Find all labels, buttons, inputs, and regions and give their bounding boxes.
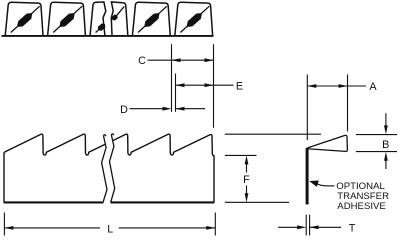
- dimension B bottom extension: [356, 151, 397, 153]
- svg-text:T: T: [349, 223, 356, 235]
- dimension A: [307, 84, 316, 88]
- dimension E: [176, 83, 185, 87]
- dimension B arrows: [385, 113, 387, 126]
- svg-text:A: A: [369, 81, 377, 93]
- finger 4 (top view): [132, 2, 170, 36]
- finger 3 left fragment (top view, with break): [90, 2, 106, 36]
- svg-text:B: B: [382, 139, 389, 151]
- extension line at finger edge (x=171.5): [171, 44, 173, 112]
- extension line, strip top (y=134.2): [225, 133, 321, 135]
- side view bottom edge left segment (thick): [4, 201, 102, 203]
- extension line, tooth root (y=155.4): [225, 154, 257, 156]
- finger 5 (top view): [175, 2, 213, 36]
- side view bottom edge right segment (thick): [111, 201, 214, 203]
- extension line A left (x=307.3): [306, 75, 308, 141]
- finger flag (end view): [308, 135, 348, 151]
- finger 1 (top view): [5, 2, 43, 36]
- break line (side view, left): [102, 135, 107, 204]
- svg-text:L: L: [107, 224, 113, 236]
- extension line L left: [3, 213, 5, 236]
- extension line T left: [305, 215, 307, 236]
- break line (side view, right): [110, 134, 115, 203]
- dimension L: [4, 226, 13, 230]
- finger 2 (top view): [48, 2, 86, 36]
- extension line L right: [214, 213, 216, 236]
- extension line at strip right end (x=213.5): [213, 44, 215, 128]
- base line of top view: [2, 35, 214, 37]
- finger 3 right fragment (top view, with break): [111, 2, 128, 35]
- dimension F: [245, 155, 249, 164]
- side view strip outline, right of break: [113, 134, 214, 203]
- adhesive leader arrow: [317, 184, 335, 186]
- extension line at finger edge (x=175.5): [175, 74, 177, 112]
- svg-text:C: C: [138, 55, 146, 67]
- dimension B top extension: [356, 134, 397, 136]
- svg-text:ADHESIVE: ADHESIVE: [337, 201, 386, 212]
- extension line A right (x=347.5): [347, 75, 349, 132]
- svg-text:D: D: [120, 104, 128, 116]
- side view strip outline, left of break: [4, 134, 105, 203]
- strip vertical bar (end view): [306, 148, 309, 205]
- svg-text:F: F: [243, 174, 250, 186]
- svg-text:E: E: [236, 80, 243, 92]
- extension line, strip bottom (y=202.3): [225, 201, 289, 203]
- extension line T right: [309, 215, 311, 236]
- dimension T: [278, 226, 298, 228]
